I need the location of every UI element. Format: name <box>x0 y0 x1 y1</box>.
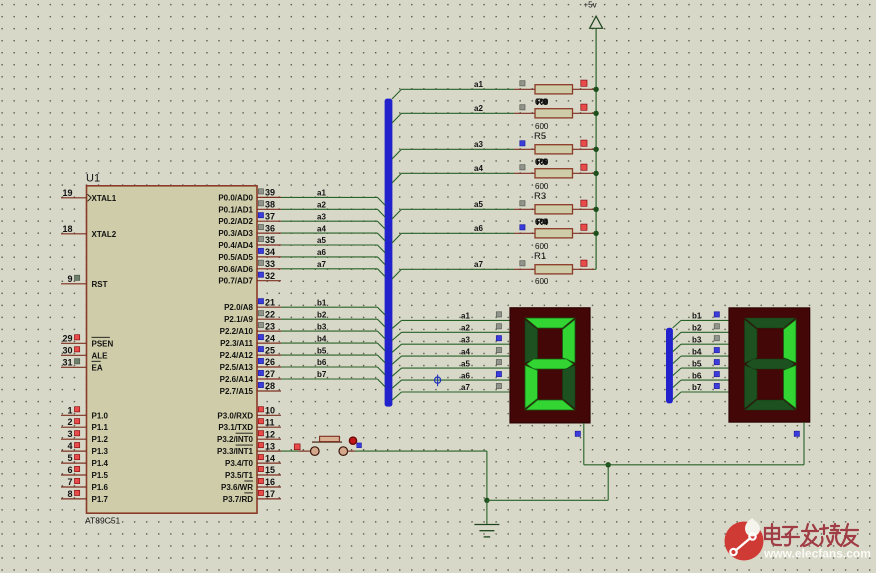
svg-text:15: 15 <box>265 465 275 475</box>
svg-text:a3: a3 <box>317 212 326 221</box>
pin 15 stub (right, P3.5/T1) <box>257 465 281 475</box>
svg-text:a4: a4 <box>461 347 470 356</box>
pin 5 stub (left, P1.4) <box>61 453 87 463</box>
wire b2 from U1 P2.1 to bus <box>281 319 385 327</box>
svg-text:39: 39 <box>265 188 275 198</box>
DS2 pin state square b5 <box>714 360 719 365</box>
svg-text:31: 31 <box>62 357 72 367</box>
DS2 common pin state square <box>794 431 799 436</box>
wire a6 bus to display DS1 <box>392 380 510 388</box>
svg-text:P1.2: P1.2 <box>92 435 109 444</box>
pin 32 stub (right, P0.7/AD7) <box>257 271 281 281</box>
svg-text:P3.1/TXD: P3.1/TXD <box>218 423 253 432</box>
wire b3 bus to display DS2 <box>673 344 729 352</box>
pin 37 stub (right, P0.2/AD2) <box>257 211 281 221</box>
svg-text:27: 27 <box>265 369 275 379</box>
svg-text:38: 38 <box>265 200 275 210</box>
resistor R5 state square left <box>520 165 525 170</box>
svg-text:P3.3/INT1: P3.3/INT1 <box>217 447 254 456</box>
svg-text:32: 32 <box>265 271 275 281</box>
svg-text:a2: a2 <box>474 104 483 113</box>
DS2 pin state square b7 <box>714 383 719 388</box>
svg-text:PSEN: PSEN <box>92 339 114 348</box>
svg-text:P0.3/AD3: P0.3/AD3 <box>218 229 253 238</box>
resistor R6 state square left <box>520 141 525 146</box>
svg-text:a4: a4 <box>317 224 326 233</box>
junction on +5v rail row 3 <box>593 147 598 152</box>
svg-text:ALE: ALE <box>92 351 109 360</box>
pin 30 stub (left, ALE) <box>61 345 87 355</box>
svg-text:34: 34 <box>265 247 275 257</box>
svg-text:b7: b7 <box>317 370 327 379</box>
svg-text:19: 19 <box>62 188 72 198</box>
pin 38 stub (right, P0.1/AD1) <box>257 200 281 210</box>
svg-text:b3: b3 <box>692 335 702 344</box>
svg-text:P1.7: P1.7 <box>92 495 109 504</box>
junction at common rail <box>606 462 611 467</box>
pin 10 stub (right, P3.0/RXD) <box>257 406 281 416</box>
wire a5 bus to resistor <box>392 209 514 219</box>
pin 17 stub (right, P3.7/RD) <box>257 489 281 499</box>
DS2 pin state square b2 <box>714 324 719 329</box>
svg-text:P2.5/A13: P2.5/A13 <box>220 363 254 372</box>
svg-text:a3: a3 <box>461 335 470 344</box>
DS1 common pin state square <box>575 431 580 436</box>
svg-text:P2.1/A9: P2.1/A9 <box>224 315 253 324</box>
wire a1 from U1 P0.0 to bus <box>281 197 385 205</box>
svg-text:b4: b4 <box>317 334 327 343</box>
svg-text:36: 36 <box>265 223 275 233</box>
DS2 common pin wire <box>803 422 805 465</box>
svg-text:b6: b6 <box>317 358 327 367</box>
U1 pin label P1.2 <box>92 435 109 444</box>
probe marker on wire a6 <box>435 375 441 387</box>
pin 3 stub (left, P1.2) <box>61 429 87 439</box>
resistor R4 state square left <box>520 201 525 206</box>
resistor R3 state square right <box>581 224 587 230</box>
svg-text:600: 600 <box>535 242 549 251</box>
ground symbol <box>474 525 499 537</box>
pin 24 stub (right, P2.3/A11) <box>257 333 281 343</box>
svg-text:+5v: +5v <box>584 1 597 10</box>
svg-text:a6: a6 <box>461 371 470 380</box>
svg-text:9: 9 <box>67 274 72 284</box>
svg-text:11: 11 <box>265 417 275 427</box>
svg-text:12: 12 <box>265 429 275 439</box>
svg-text:5: 5 <box>67 453 72 463</box>
wire b4 bus to display DS2 <box>673 356 729 364</box>
DS1 pin state square a4 <box>496 348 501 353</box>
junction on +5v rail row 4 <box>593 171 598 176</box>
svg-text:P3.4/T0: P3.4/T0 <box>225 459 254 468</box>
svg-text:28: 28 <box>265 381 275 391</box>
svg-text:a5: a5 <box>317 236 326 245</box>
svg-text:P2.7/A15: P2.7/A15 <box>220 387 254 396</box>
pin 7 stub (left, P1.6) <box>61 477 87 487</box>
svg-text:26: 26 <box>265 357 275 367</box>
resistor R3 body <box>514 229 596 238</box>
U1 pin label P1.1 <box>92 423 109 432</box>
U1 pin label P0.4/AD4 <box>218 241 253 250</box>
svg-text:21: 21 <box>265 297 275 307</box>
wire corner down to ground node <box>486 451 488 500</box>
wire a5 bus to display DS1 <box>392 368 510 376</box>
pin 8 stub (left, P1.7) <box>61 489 87 499</box>
svg-text:37: 37 <box>265 211 275 221</box>
wire ground node down to ground <box>486 500 488 524</box>
7-segment display DS1 digit 2 <box>525 318 575 410</box>
DS1 pin state square a5 <box>496 360 501 365</box>
svg-text:a1: a1 <box>474 80 483 89</box>
pin 6 stub (left, P1.5) <box>61 465 87 475</box>
wire a3 bus to resistor <box>392 149 514 159</box>
svg-text:P3.7/RD: P3.7/RD <box>223 495 253 504</box>
wire a6 from U1 P0.5 to bus <box>281 257 385 265</box>
U1 pin label P2.6/A14 <box>220 375 254 384</box>
pin 29 stub (left, PSEN) <box>61 333 87 343</box>
svg-text:EA: EA <box>92 363 103 372</box>
U1 pin label P2.3/A11 <box>220 339 253 348</box>
7-segment display DS2 digit 1 <box>745 318 797 410</box>
junction at ground node <box>484 498 489 503</box>
svg-text:b6: b6 <box>692 371 702 380</box>
junction on +5v rail row 1 <box>593 87 598 92</box>
wire b5 bus to display DS2 <box>673 368 729 376</box>
pin 2 stub (left, P1.1) <box>61 417 87 427</box>
wire b4 from U1 P2.3 to bus <box>281 343 385 351</box>
svg-text:P0.6/AD6: P0.6/AD6 <box>218 265 253 274</box>
svg-text:a5: a5 <box>474 200 483 209</box>
pin 26 stub (right, P2.5/A13) <box>257 357 281 367</box>
svg-text:a2: a2 <box>317 201 326 210</box>
svg-text:b5: b5 <box>317 346 327 355</box>
DS2 pin state square b3 <box>714 336 719 341</box>
pin 19 stub (left, XTAL1) <box>61 188 87 198</box>
wire a1 bus to display DS1 <box>392 320 510 328</box>
svg-text:a4: a4 <box>474 164 483 173</box>
svg-text:b2: b2 <box>317 310 327 319</box>
wire b2 bus to display DS2 <box>673 332 729 340</box>
button actuator marker <box>349 437 356 444</box>
svg-text:a1: a1 <box>317 189 326 198</box>
svg-text:600: 600 <box>535 277 549 286</box>
svg-text:6: 6 <box>67 465 72 475</box>
push button SW1 <box>299 436 356 455</box>
pin 34 stub (right, P0.5/AD5) <box>257 247 281 257</box>
U1 pin label P2.5/A13 <box>220 363 254 372</box>
junction on +5v rail row 5 <box>593 207 598 212</box>
DS1 pin state square a1 <box>496 312 501 317</box>
wire a7 bus to resistor <box>392 269 514 279</box>
U1 pin label P3.7/RD <box>223 493 253 504</box>
U1 pin label P3.5/T1 <box>225 471 254 480</box>
wire rise point up to common rail <box>607 465 609 501</box>
U1 pin label P3.6/WR <box>221 481 253 492</box>
svg-text:18: 18 <box>62 224 72 234</box>
U1 pin label P1.6 <box>92 483 109 492</box>
wire button to corner <box>355 450 487 452</box>
wire a7 bus to display DS1 <box>392 392 510 400</box>
pin 1 stub (left, P1.0) <box>61 405 87 415</box>
svg-text:25: 25 <box>265 345 275 355</box>
U1 pin label P0.7/AD7 <box>218 277 253 286</box>
svg-text:P1.6: P1.6 <box>92 483 109 492</box>
svg-text:P3.6/WR: P3.6/WR <box>221 483 253 492</box>
svg-text:P0.7/AD7: P0.7/AD7 <box>218 277 253 286</box>
wire b6 bus to display DS2 <box>673 380 729 388</box>
svg-text:0: 0 <box>543 157 548 166</box>
junction on +5v rail row 6 <box>593 231 598 236</box>
U1 pin label P1.0 <box>92 411 109 420</box>
watermark logo (elecfans) <box>725 518 764 561</box>
svg-text:29: 29 <box>62 333 72 343</box>
svg-text:P1.1: P1.1 <box>92 423 109 432</box>
U1 pin label P0.2/AD2 <box>218 217 253 226</box>
pin 36 stub (right, P0.3/AD3) <box>257 223 281 233</box>
svg-text:13: 13 <box>265 441 275 451</box>
svg-text:7: 7 <box>67 477 72 487</box>
svg-text:RST: RST <box>92 280 108 289</box>
U1 pin label RST <box>92 280 108 289</box>
pin 11 stub (right, P3.1/TXD) <box>257 417 281 427</box>
svg-text:www.elecfans.com: www.elecfans.com <box>763 547 871 561</box>
resistor R8 state square left <box>520 81 525 86</box>
svg-text:600: 600 <box>535 122 549 131</box>
7-segment display DS2 body <box>729 308 810 422</box>
resistor R5 state square right <box>581 164 587 170</box>
junction on +5v rail row 2 <box>593 111 598 116</box>
svg-text:b7: b7 <box>692 383 702 392</box>
U1 pin label P0.3/AD3 <box>218 229 253 238</box>
resistor R7 state square left <box>520 105 525 110</box>
U1 pin label P0.5/AD5 <box>218 253 253 262</box>
U1 pin label P2.4/A12 <box>220 351 254 360</box>
U1 pin label XTAL2 <box>92 230 117 239</box>
svg-text:4: 4 <box>67 441 72 451</box>
wire a3 from U1 P0.2 to bus <box>281 221 385 229</box>
resistor R8 state square right <box>581 80 587 86</box>
svg-text:a6: a6 <box>474 224 483 233</box>
svg-text:P0.5/AD5: P0.5/AD5 <box>218 253 253 262</box>
pin 16 stub (right, P3.6/WR) <box>257 477 281 487</box>
pin 31 stub (left, EA) <box>61 357 87 367</box>
DS2 pin state square b1 <box>714 312 719 317</box>
wire a6 bus to resistor <box>392 233 514 243</box>
resistor R2 body <box>514 265 596 274</box>
U1 pin label P0.1/AD1 <box>218 205 253 214</box>
+5v power arrow <box>590 16 603 28</box>
resistor R2 state square left <box>520 261 525 266</box>
svg-text:P1.4: P1.4 <box>92 459 109 468</box>
pin 21 stub (right, P2.0/A8) <box>257 297 281 307</box>
svg-text:a7: a7 <box>317 260 326 269</box>
wire b5 from U1 P2.4 to bus <box>281 355 385 363</box>
svg-text:17: 17 <box>265 489 275 499</box>
wire a2 from U1 P0.1 to bus <box>281 209 385 217</box>
U1 pin label P3.4/T0 <box>225 459 254 468</box>
svg-text:P0.1/AD1: P0.1/AD1 <box>218 205 253 214</box>
wire a5 from U1 P0.4 to bus <box>281 245 385 253</box>
svg-text:a7: a7 <box>461 383 470 392</box>
svg-text:R5: R5 <box>534 131 546 142</box>
resistor value 600 (overlapped, row 5) <box>535 217 549 228</box>
resistor R4 state square right <box>581 200 587 206</box>
svg-text:P2.3/A11: P2.3/A11 <box>220 339 253 348</box>
svg-text:U1: U1 <box>86 173 100 185</box>
pin 18 stub (left, XTAL2) <box>61 224 87 234</box>
pin 33 stub (right, P0.6/AD6) <box>257 259 281 269</box>
button blue square marker <box>357 443 362 448</box>
pin 27 stub (right, P2.6/A14) <box>257 369 281 379</box>
DS1 pin state square a7 <box>496 383 501 388</box>
svg-text:P3.5/T1: P3.5/T1 <box>225 471 254 480</box>
resistor R4 body <box>514 205 596 214</box>
U1 pin label P2.7/A15 <box>220 387 254 396</box>
XTAL1 clock chevron <box>88 194 92 201</box>
U1 pin label P1.4 <box>92 459 109 468</box>
U1 pin label P0.6/AD6 <box>218 265 253 274</box>
resistor R5 body <box>514 169 596 178</box>
pin 4 stub (left, P1.3) <box>61 441 87 451</box>
svg-text:P3.2/INT0: P3.2/INT0 <box>217 435 254 444</box>
svg-text:b1: b1 <box>317 298 327 307</box>
svg-text:R1: R1 <box>534 251 546 262</box>
wire a4 bus to display DS1 <box>392 356 510 364</box>
resistor R6 state square right <box>581 140 587 146</box>
svg-text:XTAL1: XTAL1 <box>92 194 117 203</box>
wire b1 bus to display DS2 <box>673 320 729 328</box>
svg-text:P0.0/AD0: P0.0/AD0 <box>218 193 253 202</box>
U1 pin label P2.0/A8 <box>224 303 253 312</box>
svg-text:b3: b3 <box>317 322 327 331</box>
pin 12 stub (right, P3.2/INT0) <box>257 429 281 439</box>
svg-text:P0.4/AD4: P0.4/AD4 <box>218 241 253 250</box>
svg-text:0: 0 <box>543 217 548 226</box>
svg-text:P2.4/A12: P2.4/A12 <box>220 351 254 360</box>
wire b7 from U1 P2.6 to bus <box>281 379 385 387</box>
resistor value 600 (overlapped, row 3) <box>535 157 549 168</box>
svg-text:30: 30 <box>62 345 72 355</box>
svg-text:P1.5: P1.5 <box>92 471 109 480</box>
svg-text:a5: a5 <box>461 359 470 368</box>
pin 23 stub (right, P2.2/A10) <box>257 321 281 331</box>
U1 pin label P3.2/INT0 <box>217 433 254 444</box>
resistor R7 body <box>514 109 596 118</box>
svg-text:a2: a2 <box>461 324 470 333</box>
wire b3 from U1 P2.2 to bus <box>281 331 385 339</box>
svg-text:b4: b4 <box>692 347 702 356</box>
pin 22 stub (right, P2.1/A9) <box>257 309 281 319</box>
wire b7 bus to display DS2 <box>673 392 729 400</box>
svg-text:600: 600 <box>535 182 549 191</box>
+5v rail wire <box>595 28 597 269</box>
svg-text:a1: a1 <box>461 312 470 321</box>
U1 pin label P2.2/A10 <box>220 327 254 336</box>
U1 pin label ALE <box>92 351 109 360</box>
svg-text:14: 14 <box>265 453 275 463</box>
svg-text:P1.0: P1.0 <box>92 411 109 420</box>
U1 pin label P3.1/TXD <box>218 423 253 432</box>
svg-text:P0.2/AD2: P0.2/AD2 <box>218 217 253 226</box>
wire a4 from U1 P0.3 to bus <box>281 233 385 241</box>
U1 pin label P3.3/INT1 <box>217 445 254 456</box>
U1 pin label PSEN <box>92 337 114 348</box>
DS1 pin state square a6 <box>496 372 501 377</box>
U1 pin label P0.0/AD0 <box>218 193 253 202</box>
U1 pin label P2.1/A9 <box>224 315 253 324</box>
wire ground node to rise point <box>487 499 608 501</box>
7-segment display DS1 body <box>510 308 590 423</box>
button state square <box>294 444 300 450</box>
svg-text:0: 0 <box>543 97 548 106</box>
wire U1 pin13 to button <box>281 450 299 452</box>
U1 pin label XTAL1 <box>92 194 117 203</box>
main vertical bus <box>385 99 393 407</box>
pin 35 stub (right, P0.4/AD4) <box>257 235 281 245</box>
wire a7 from U1 P0.6 to bus <box>281 269 385 277</box>
DS2 pin state square b4 <box>714 348 719 353</box>
U1 pin label P3.0/RXD <box>217 411 253 420</box>
svg-text:a6: a6 <box>317 248 326 257</box>
svg-text:b5: b5 <box>692 359 702 368</box>
wire a1 bus to resistor <box>392 89 514 99</box>
DS1 common pin wire <box>583 423 585 465</box>
wire common rail DS1 to DS2 <box>584 464 804 466</box>
svg-text:a7: a7 <box>474 260 483 269</box>
pin 39 stub (right, P0.0/AD0) <box>257 188 281 198</box>
microcontroller U1 AT89C51 body <box>87 186 258 513</box>
svg-text:a3: a3 <box>474 140 483 149</box>
DS1 pin state square a3 <box>496 336 501 341</box>
bus segment at DS2 <box>666 328 673 404</box>
pin 28 stub (right, P2.7/A15) <box>257 381 281 391</box>
wire a2 bus to display DS1 <box>392 332 510 340</box>
wire a2 bus to resistor <box>392 113 514 123</box>
svg-text:1: 1 <box>67 405 72 415</box>
svg-text:P2.0/A8: P2.0/A8 <box>224 303 253 312</box>
svg-text:2: 2 <box>67 417 72 427</box>
U1 pin label P1.7 <box>92 495 109 504</box>
svg-text:P2.6/A14: P2.6/A14 <box>220 375 254 384</box>
svg-text:b2: b2 <box>692 324 702 333</box>
svg-text:b1: b1 <box>692 312 702 321</box>
pin 25 stub (right, P2.4/A12) <box>257 345 281 355</box>
svg-text:P2.2/A10: P2.2/A10 <box>220 327 254 336</box>
svg-text:35: 35 <box>265 235 275 245</box>
resistor R7 state square right <box>581 104 587 110</box>
resistor R3 state square left <box>520 225 525 230</box>
svg-text:8: 8 <box>67 489 72 499</box>
U1 pin label P1.3 <box>92 447 109 456</box>
svg-text:33: 33 <box>265 259 275 269</box>
svg-text:AT89C51: AT89C51 <box>85 516 121 526</box>
svg-text:22: 22 <box>265 309 275 319</box>
wire b1 from U1 P2.0 to bus <box>281 307 385 315</box>
svg-text:XTAL2: XTAL2 <box>92 230 117 239</box>
DS2 pin state square b6 <box>714 372 719 377</box>
resistor R8 body <box>514 85 596 94</box>
svg-text:P3.0/RXD: P3.0/RXD <box>217 411 253 420</box>
watermark text 电子发烧友 <box>765 524 858 546</box>
pin 13 stub (right, P3.3/INT1) <box>257 441 281 451</box>
U1 pin label EA <box>92 361 103 372</box>
resistor R6 body <box>514 145 596 154</box>
svg-text:10: 10 <box>265 406 275 416</box>
resistor value 600 (overlapped, row 1) <box>535 97 549 108</box>
U1 pin label P1.5 <box>92 471 109 480</box>
svg-text:23: 23 <box>265 321 275 331</box>
wire b6 from U1 P2.5 to bus <box>281 367 385 375</box>
